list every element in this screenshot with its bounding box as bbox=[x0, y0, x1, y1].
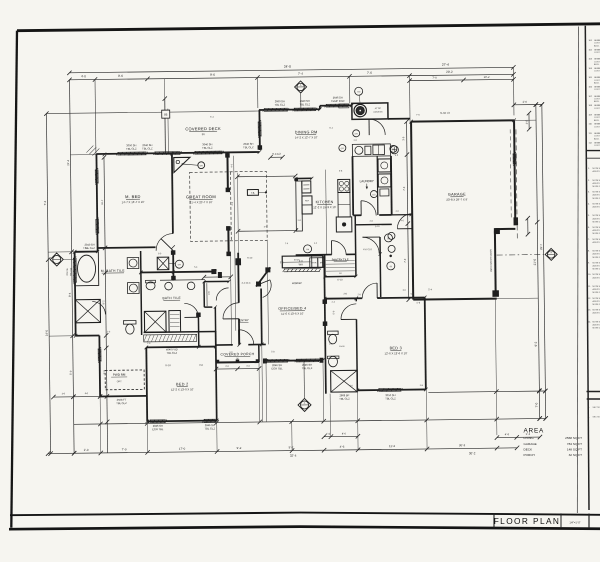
svg-text:32 SQ FT: 32 SQ FT bbox=[569, 453, 583, 457]
svg-text:MORE DETAIL LINE: MORE DETAIL LINE bbox=[593, 185, 600, 188]
svg-text:GARAGE: GARAGE bbox=[448, 192, 466, 196]
svg-text:BATH TILE: BATH TILE bbox=[162, 296, 181, 300]
svg-text:7'-0: 7'-0 bbox=[122, 447, 127, 451]
svg-text:BED 2: BED 2 bbox=[176, 382, 189, 386]
svg-text:ADDL NOTE LINE: ADDL NOTE LINE bbox=[594, 82, 600, 85]
svg-text:16/0 X 8/0 OH DOOR: 16/0 X 8/0 OH DOOR bbox=[490, 249, 493, 272]
svg-text:NOTE SPECIFICATION TEXT: NOTE SPECIFICATION TEXT bbox=[593, 202, 600, 205]
svg-text:12.: 12. bbox=[588, 298, 591, 300]
svg-text:9'-2: 9'-2 bbox=[534, 341, 538, 346]
svg-text:27'-4: 27'-4 bbox=[442, 63, 449, 67]
svg-text:CONT SPEC REFERENCE: CONT SPEC REFERENCE bbox=[594, 99, 600, 101]
svg-text:4'-6: 4'-6 bbox=[340, 445, 345, 449]
svg-text:TBL GLZ: TBL GLZ bbox=[126, 147, 137, 151]
svg-text:TBL GLZ: TBL GLZ bbox=[116, 401, 127, 405]
svg-text:TBL GLZ: TBL GLZ bbox=[302, 366, 313, 370]
svg-text:CONT SPEC REFERENCE: CONT SPEC REFERENCE bbox=[594, 43, 600, 45]
svg-text:ADDL NOTE LINE: ADDL NOTE LINE bbox=[594, 44, 600, 47]
svg-text:21'-4 X 20'-7 X 10': 21'-4 X 20'-7 X 10' bbox=[190, 200, 213, 204]
svg-text:NOTE SPECIFICATION TEXT: NOTE SPECIFICATION TEXT bbox=[593, 261, 600, 264]
svg-text:8'-2: 8'-2 bbox=[102, 300, 105, 305]
svg-text:ADDL NOTE LINE: ADDL NOTE LINE bbox=[594, 137, 600, 140]
svg-text:14.: 14. bbox=[588, 321, 591, 323]
svg-text:ADDL NOTE LINE: ADDL NOTE LINE bbox=[594, 63, 600, 66]
svg-text:GENERAL NOTE TEXT LINE: GENERAL NOTE TEXT LINE bbox=[594, 58, 600, 61]
svg-text:ACCESS: ACCESS bbox=[373, 110, 383, 113]
svg-text:GFI: GFI bbox=[178, 264, 182, 266]
svg-text:784 SQ FT: 784 SQ FT bbox=[567, 442, 582, 446]
svg-text:5'-10: 5'-10 bbox=[247, 258, 253, 260]
svg-text:148 SQ FT: 148 SQ FT bbox=[567, 447, 582, 451]
svg-text:17'-0: 17'-0 bbox=[179, 447, 186, 451]
svg-text:10'-2: 10'-2 bbox=[484, 75, 490, 79]
svg-text:M. BED: M. BED bbox=[125, 194, 141, 199]
svg-text:SECTION NOTE: SECTION NOTE bbox=[593, 407, 600, 409]
svg-text:32'-4: 32'-4 bbox=[290, 454, 297, 458]
svg-text:ADDITIONAL LINE OF NOTE: ADDITIONAL LINE OF NOTE bbox=[593, 170, 600, 173]
svg-text:GFI: GFI bbox=[355, 133, 359, 135]
svg-text:7'-4: 7'-4 bbox=[298, 72, 303, 76]
svg-text:ADDITIONAL LINE OF NOTE: ADDITIONAL LINE OF NOTE bbox=[593, 312, 600, 315]
svg-text:GENERAL NOTE TEXT LINE: GENERAL NOTE TEXT LINE bbox=[594, 67, 600, 70]
svg-text:ADDITIONAL LINE OF NOTE: ADDITIONAL LINE OF NOTE bbox=[593, 217, 600, 220]
svg-text:4'-0 CLG: 4'-0 CLG bbox=[363, 249, 372, 251]
svg-text:13.: 13. bbox=[588, 310, 591, 312]
svg-text:3'-4 1/2: 3'-4 1/2 bbox=[272, 152, 281, 156]
svg-text:GARAGE: GARAGE bbox=[524, 442, 537, 446]
svg-text:CONT SPEC REFERENCE: CONT SPEC REFERENCE bbox=[594, 145, 600, 147]
svg-text:86: 86 bbox=[164, 113, 168, 117]
svg-text:CONT SPEC REFERENCE: CONT SPEC REFERENCE bbox=[594, 80, 600, 82]
svg-text:60: 60 bbox=[390, 266, 392, 268]
svg-text:2'-0: 2'-0 bbox=[84, 448, 89, 452]
svg-text:CM: CM bbox=[306, 249, 309, 251]
svg-text:ADDITIONAL LINE OF NOTE: ADDITIONAL LINE OF NOTE bbox=[593, 229, 600, 232]
svg-text:EGR TBL: EGR TBL bbox=[272, 366, 284, 370]
svg-text:3'-0: 3'-0 bbox=[402, 136, 405, 141]
svg-text:NOTE SPECIFICATION TEXT: NOTE SPECIFICATION TEXT bbox=[593, 167, 600, 170]
svg-text:MORE DETAIL LINE: MORE DETAIL LINE bbox=[593, 256, 600, 259]
svg-text:CONT SPEC REFERENCE: CONT SPEC REFERENCE bbox=[594, 52, 600, 54]
svg-text:14'-0: 14'-0 bbox=[45, 330, 49, 337]
svg-text:GENERAL NOTE TEXT LINE: GENERAL NOTE TEXT LINE bbox=[594, 113, 600, 116]
svg-text:ADDL NOTE LINE: ADDL NOTE LINE bbox=[594, 119, 600, 122]
svg-text:TBL GLZ: TBL GLZ bbox=[142, 146, 153, 150]
svg-text:PWD RM: PWD RM bbox=[113, 373, 126, 377]
svg-text:2568 SQ FT: 2568 SQ FT bbox=[565, 436, 582, 440]
svg-text:SECTION NOTE: SECTION NOTE bbox=[593, 417, 600, 419]
svg-text:5'-0: 5'-0 bbox=[69, 370, 73, 375]
svg-text:2'-0: 2'-0 bbox=[523, 100, 528, 104]
svg-text:12'-6 X 13'-6 X 10': 12'-6 X 13'-6 X 10' bbox=[384, 351, 407, 355]
svg-text:GENERAL NOTE TEXT LINE: GENERAL NOTE TEXT LINE bbox=[594, 95, 600, 98]
svg-text:PANTRY TILE: PANTRY TILE bbox=[332, 257, 349, 261]
svg-text:110: 110 bbox=[372, 194, 375, 196]
svg-text:ADDITIONAL LINE OF NOTE: ADDITIONAL LINE OF NOTE bbox=[593, 241, 600, 244]
svg-text:LIN: LIN bbox=[209, 291, 211, 295]
svg-text:PORCH: PORCH bbox=[524, 453, 535, 457]
svg-text:ADDL NOTE LINE: ADDL NOTE LINE bbox=[594, 100, 600, 103]
svg-text:9'-2: 9'-2 bbox=[289, 445, 294, 449]
svg-text:CM: CM bbox=[357, 91, 360, 93]
svg-text:CONT SPEC REFERENCE: CONT SPEC REFERENCE bbox=[594, 117, 600, 119]
svg-text:NOTE SPECIFICATION TEXT: NOTE SPECIFICATION TEXT bbox=[593, 285, 600, 288]
svg-text:14'-7 X 16'-7 X 10': 14'-7 X 16'-7 X 10' bbox=[122, 200, 145, 204]
svg-text:12'-2 X 15'-3 X 10': 12'-2 X 15'-3 X 10' bbox=[313, 205, 336, 209]
svg-text:30'-2: 30'-2 bbox=[469, 451, 476, 455]
svg-text:CONT SPEC REFERENCE: CONT SPEC REFERENCE bbox=[594, 71, 600, 73]
svg-text:21'-4: 21'-4 bbox=[66, 159, 70, 165]
svg-text:GENERAL NOTE TEXT LINE: GENERAL NOTE TEXT LINE bbox=[594, 104, 600, 107]
svg-text:NOTE SPECIFICATION TEXT: NOTE SPECIFICATION TEXT bbox=[593, 226, 600, 229]
svg-text:4068 BP: 4068 BP bbox=[292, 281, 302, 285]
svg-text:LAUNDRY: LAUNDRY bbox=[360, 179, 374, 183]
svg-text:MORE DETAIL LINE: MORE DETAIL LINE bbox=[593, 327, 600, 330]
svg-text:NOTE SPECIFICATION TEXT: NOTE SPECIFICATION TEXT bbox=[593, 238, 600, 241]
svg-text:GREAT ROOM: GREAT ROOM bbox=[186, 194, 216, 199]
svg-text:16'-7: 16'-7 bbox=[101, 199, 104, 205]
svg-text:ADDITIONAL LINE OF NOTE: ADDITIONAL LINE OF NOTE bbox=[593, 300, 600, 303]
svg-text:8'-4: 8'-4 bbox=[68, 292, 72, 297]
svg-text:ADDITIONAL LINE OF NOTE: ADDITIONAL LINE OF NOTE bbox=[593, 206, 600, 209]
svg-text:NOTE SPECIFICATION TEXT: NOTE SPECIFICATION TEXT bbox=[593, 297, 600, 300]
svg-text:9'-6: 9'-6 bbox=[118, 74, 123, 78]
svg-text:MORE DETAIL LINE: MORE DETAIL LINE bbox=[593, 232, 600, 235]
svg-text:DECK: DECK bbox=[524, 447, 534, 451]
svg-text:9'-6: 9'-6 bbox=[210, 73, 215, 77]
svg-text:4'-6: 4'-6 bbox=[342, 432, 347, 435]
svg-text:GENERAL NOTE TEXT LINE: GENERAL NOTE TEXT LINE bbox=[594, 76, 600, 79]
svg-text:29'-7: 29'-7 bbox=[539, 244, 543, 250]
svg-text:AREA: AREA bbox=[524, 428, 545, 435]
svg-text:ADDITIONAL LINE OF NOTE: ADDITIONAL LINE OF NOTE bbox=[593, 253, 600, 256]
svg-text:ADDITIONAL LINE OF NOTE: ADDITIONAL LINE OF NOTE bbox=[593, 324, 600, 327]
svg-text:12'-2 X 13'-0 X 10': 12'-2 X 13'-0 X 10' bbox=[171, 387, 194, 391]
svg-text:M. BATH TILE: M. BATH TILE bbox=[101, 269, 125, 273]
svg-text:112: 112 bbox=[387, 238, 390, 240]
svg-text:NOTE SPECIFICATION TEXT: NOTE SPECIFICATION TEXT bbox=[593, 214, 600, 217]
svg-text:7'-0: 7'-0 bbox=[535, 402, 539, 407]
svg-text:20'-2: 20'-2 bbox=[446, 70, 453, 74]
svg-text:TBL GLZ: TBL GLZ bbox=[243, 145, 254, 149]
svg-text:FLOOR PLAN: FLOOR PLAN bbox=[494, 516, 561, 526]
svg-text:6'-10: 6'-10 bbox=[337, 278, 343, 281]
svg-text:COVERED DECK: COVERED DECK bbox=[185, 126, 221, 131]
svg-text:7'-6: 7'-6 bbox=[367, 71, 372, 75]
svg-text:24'-8: 24'-8 bbox=[284, 65, 291, 69]
svg-text:TBL GLZ: TBL GLZ bbox=[275, 103, 286, 107]
svg-text:KITCHEN: KITCHEN bbox=[316, 200, 334, 204]
svg-text:TBL GLZ: TBL GLZ bbox=[205, 426, 216, 430]
svg-text:22x30: 22x30 bbox=[339, 346, 345, 348]
svg-text:GENERAL NOTE TEXT LINE: GENERAL NOTE TEXT LINE bbox=[594, 132, 600, 135]
svg-text:TBL GLZ: TBL GLZ bbox=[339, 397, 350, 401]
svg-text:30'-2: 30'-2 bbox=[459, 443, 466, 447]
svg-text:T.B.: T.B. bbox=[251, 192, 255, 195]
svg-text:TBL GLZ: TBL GLZ bbox=[300, 102, 311, 106]
svg-text:OFFICE/BED 4: OFFICE/BED 4 bbox=[278, 306, 306, 310]
svg-text:WH: WH bbox=[299, 262, 303, 266]
svg-text:MORE DETAIL LINE: MORE DETAIL LINE bbox=[593, 268, 600, 271]
svg-text:ADDITIONAL LINE OF NOTE: ADDITIONAL LINE OF NOTE bbox=[593, 182, 600, 185]
svg-text:7'-0: 7'-0 bbox=[404, 258, 407, 263]
svg-text:SLAB 1/2: SLAB 1/2 bbox=[440, 112, 451, 115]
svg-text:4'-0 CLG: 4'-0 CLG bbox=[241, 283, 250, 285]
svg-text:GENERAL NOTE TEXT LINE: GENERAL NOTE TEXT LINE bbox=[594, 86, 600, 89]
svg-text:3050 SH: 3050 SH bbox=[67, 267, 69, 275]
svg-text:4'-6: 4'-6 bbox=[199, 364, 204, 367]
svg-text:BED 3: BED 3 bbox=[390, 346, 403, 350]
svg-text:TBL GLZ: TBL GLZ bbox=[70, 267, 72, 276]
svg-text:DINING RM: DINING RM bbox=[295, 130, 318, 134]
svg-text:NOTE SPECIFICATION TEXT: NOTE SPECIFICATION TEXT bbox=[593, 309, 600, 312]
svg-text:4'-0: 4'-0 bbox=[81, 74, 86, 78]
svg-text:ATTIC: ATTIC bbox=[375, 107, 382, 110]
svg-text:GENERAL NOTE TEXT LINE: GENERAL NOTE TEXT LINE bbox=[594, 48, 600, 51]
svg-text:TBL GLZ: TBL GLZ bbox=[385, 396, 396, 400]
svg-text:GFI: GFI bbox=[341, 148, 345, 150]
svg-text:NOTE SPECIFICATION TEXT: NOTE SPECIFICATION TEXT bbox=[593, 273, 600, 276]
svg-text:CONT SPEC REFERENCE: CONT SPEC REFERENCE bbox=[594, 136, 600, 138]
svg-text:ADDITIONAL LINE OF NOTE: ADDITIONAL LINE OF NOTE bbox=[593, 288, 600, 291]
svg-text:2'-4: 2'-4 bbox=[326, 433, 331, 436]
svg-text:21'-0: 21'-0 bbox=[533, 258, 537, 265]
svg-text:14'-2 X 12'-7 X 10': 14'-2 X 12'-7 X 10' bbox=[295, 135, 318, 139]
svg-text:TBL GLZ: TBL GLZ bbox=[167, 351, 178, 355]
svg-text:11'-6 X 13'-6 X 10': 11'-6 X 13'-6 X 10' bbox=[281, 311, 304, 315]
svg-text:MORE DETAIL LINE: MORE DETAIL LINE bbox=[593, 197, 600, 200]
svg-text:GENERAL NOTE TEXT LINE: GENERAL NOTE TEXT LINE bbox=[594, 141, 600, 144]
svg-text:10.: 10. bbox=[588, 274, 591, 276]
svg-text:ADDITIONAL LINE OF NOTE: ADDITIONAL LINE OF NOTE bbox=[593, 265, 600, 268]
svg-text:ADDITIONAL LINE OF NOTE: ADDITIONAL LINE OF NOTE bbox=[593, 194, 600, 197]
svg-text:GENERAL NOTE TEXT LINE: GENERAL NOTE TEXT LINE bbox=[594, 39, 600, 42]
svg-text:NOTE SPECIFICATION TEXT: NOTE SPECIFICATION TEXT bbox=[593, 191, 600, 194]
svg-text:23'-8 X 29'-7 X 9': 23'-8 X 29'-7 X 9' bbox=[446, 197, 468, 201]
svg-text:OPT: OPT bbox=[117, 380, 122, 383]
svg-text:ADDITIONAL LINE OF NOTE: ADDITIONAL LINE OF NOTE bbox=[593, 276, 600, 279]
svg-text:GFI: GFI bbox=[200, 165, 204, 167]
svg-text:7'-0: 7'-0 bbox=[403, 186, 406, 191]
svg-text:11.: 11. bbox=[588, 286, 591, 288]
svg-text:5'-10: 5'-10 bbox=[165, 364, 171, 367]
svg-text:RODS: RODS bbox=[294, 259, 300, 261]
svg-text:GENERAL NOTE TEXT LINE: GENERAL NOTE TEXT LINE bbox=[594, 123, 600, 126]
svg-text:TEMP EGR: TEMP EGR bbox=[331, 99, 345, 103]
svg-text:CONT SPEC REFERENCE: CONT SPEC REFERENCE bbox=[594, 61, 600, 63]
svg-text:11'-2: 11'-2 bbox=[389, 444, 396, 448]
svg-text:4'-6: 4'-6 bbox=[505, 432, 510, 436]
svg-text:1/4"=1'-0": 1/4"=1'-0" bbox=[569, 521, 580, 525]
svg-text:TBL GLZ: TBL GLZ bbox=[202, 146, 213, 150]
svg-text:CONT SPEC REFERENCE: CONT SPEC REFERENCE bbox=[594, 126, 600, 128]
svg-text:7'-0: 7'-0 bbox=[432, 76, 437, 80]
svg-text:ENTRY: ENTRY bbox=[239, 318, 249, 322]
svg-text:NOTE SPECIFICATION TEXT: NOTE SPECIFICATION TEXT bbox=[593, 250, 600, 253]
svg-text:COVERED PORCH: COVERED PORCH bbox=[220, 352, 254, 356]
svg-text:LIVING: LIVING bbox=[524, 436, 535, 440]
svg-text:CONT SPEC REFERENCE: CONT SPEC REFERENCE bbox=[594, 89, 600, 91]
svg-text:NOTE SPECIFICATION TEXT: NOTE SPECIFICATION TEXT bbox=[593, 320, 600, 323]
svg-text:9'-2: 9'-2 bbox=[237, 446, 242, 450]
svg-text:EGR TBL: EGR TBL bbox=[152, 427, 164, 431]
svg-text:MORE DETAIL LINE: MORE DETAIL LINE bbox=[593, 220, 600, 223]
svg-text:NOTE SPECIFICATION TEXT: NOTE SPECIFICATION TEXT bbox=[593, 179, 600, 182]
svg-text:CONT SPEC REFERENCE: CONT SPEC REFERENCE bbox=[594, 108, 600, 110]
svg-text:MORE DETAIL LINE: MORE DETAIL LINE bbox=[593, 303, 600, 306]
svg-text:MORE DETAIL LINE: MORE DETAIL LINE bbox=[593, 291, 600, 294]
svg-text:7'-2: 7'-2 bbox=[43, 200, 47, 205]
